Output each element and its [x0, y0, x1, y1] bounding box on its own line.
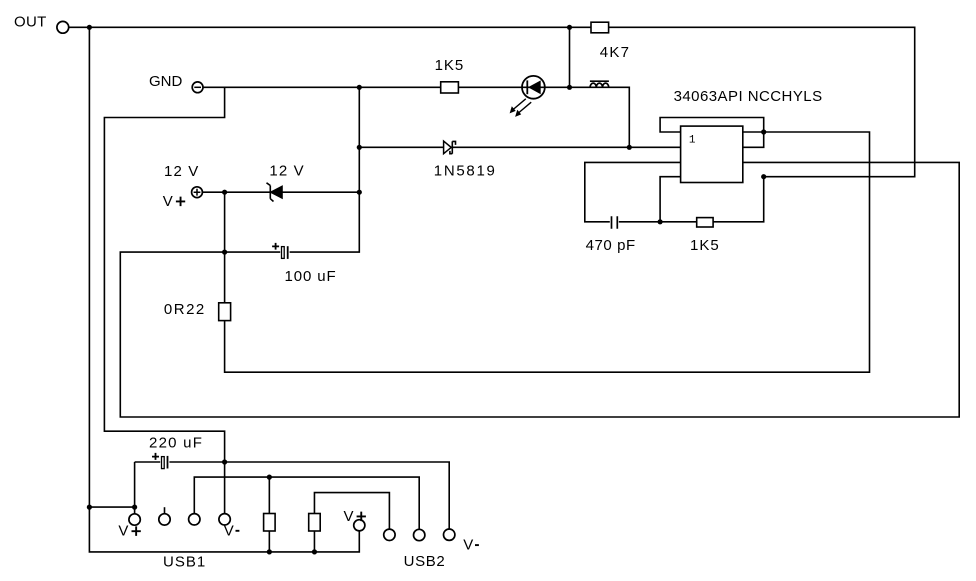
svg-text:GND: GND: [149, 73, 183, 90]
svg-text:V: V: [344, 508, 354, 525]
svg-text:1: 1: [689, 134, 696, 146]
svg-text:12 V: 12 V: [164, 163, 199, 180]
svg-text:USB2: USB2: [404, 553, 446, 570]
svg-text:V: V: [163, 193, 173, 210]
svg-text:V: V: [118, 523, 128, 540]
svg-text:4K7: 4K7: [600, 44, 630, 61]
svg-text:1K5: 1K5: [435, 57, 465, 74]
svg-text:OUT: OUT: [14, 13, 47, 30]
svg-text:220 uF: 220 uF: [149, 435, 203, 452]
svg-text:1K5: 1K5: [690, 237, 720, 254]
svg-text:100 uF: 100 uF: [285, 268, 337, 285]
svg-text:470 pF: 470 pF: [586, 237, 636, 254]
svg-text:V: V: [463, 537, 473, 554]
svg-text:0R22: 0R22: [164, 301, 206, 318]
svg-text:12 V: 12 V: [269, 163, 304, 180]
svg-text:1N5819: 1N5819: [434, 162, 497, 179]
svg-text:34063API NCCHYLS: 34063API NCCHYLS: [674, 88, 823, 105]
svg-text:USB1: USB1: [163, 553, 206, 570]
svg-text:V: V: [224, 522, 234, 539]
